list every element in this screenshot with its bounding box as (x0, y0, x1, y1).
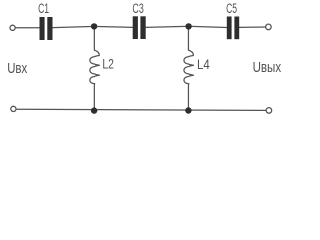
inductor L4 (184, 29, 193, 111)
wire top: node 1 to C3 (97, 26, 132, 29)
junction node 1 top (91, 23, 97, 29)
wire top: C3 to node 2 (146, 26, 186, 27)
capacitor C5 plates (227, 17, 232, 40)
svg-text:C3: C3 (132, 1, 143, 16)
wire top: node 2 to C5 (192, 26, 227, 27)
svg-text:C5: C5 (226, 1, 237, 16)
capacitor C1 plates (40, 17, 45, 40)
junction node 1 bottom (91, 107, 97, 113)
terminal bottom-right (266, 108, 272, 114)
junction node 2 top (185, 23, 191, 29)
junction node 2 bottom (185, 107, 191, 113)
wire top: C1 to node 1 (53, 27, 91, 28)
svg-text:L4: L4 (197, 57, 210, 72)
svg-text:C1: C1 (38, 1, 49, 16)
inductor L2 (90, 29, 99, 111)
svg-text:Uвых: Uвых (253, 60, 282, 76)
terminal top-right (266, 24, 272, 30)
wire bottom rail (16, 109, 266, 110)
svg-text:Uвх: Uвх (7, 61, 27, 77)
svg-text:L2: L2 (102, 56, 114, 71)
wire top: C5 to terminal (239, 26, 265, 28)
wire top: terminal to C1 (16, 27, 40, 29)
terminal bottom-left (11, 106, 16, 111)
terminal top-left (10, 25, 15, 30)
capacitor C3 plates (133, 16, 138, 39)
